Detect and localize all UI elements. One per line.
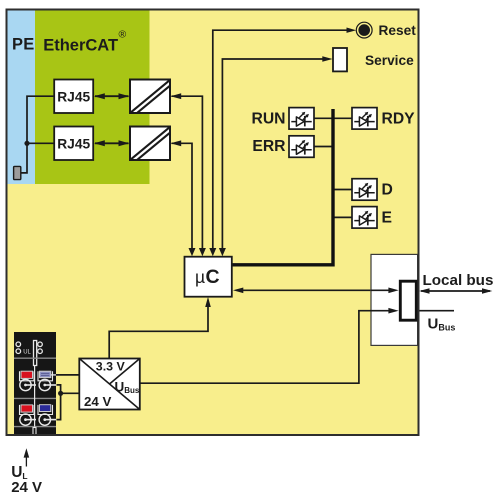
RJ45 port 1 <box>54 80 93 114</box>
magnetics T1 (isolation transformer 1) <box>130 80 174 117</box>
LED D <box>352 179 377 201</box>
wire microcontroller to connector arrowhead (over white box) <box>371 288 399 294</box>
wire RJ45-1 to magnetics T1 (bidirectional) <box>94 93 129 99</box>
LED RDY <box>352 108 377 130</box>
svg-text:E: E <box>382 210 392 227</box>
wire ERR LED to status bus <box>314 146 333 148</box>
UBus stub line to the right of connector <box>418 310 454 312</box>
wire RJ45-2 to magnetics T2 (bidirectional) <box>94 140 129 146</box>
wire magnetics T1 to microcontroller (bidirectional) <box>171 93 206 256</box>
svg-text:Reset: Reset <box>379 23 417 38</box>
wire status bus to LED E <box>333 216 352 218</box>
wire RUN LED to status bus <box>314 117 333 119</box>
svg-text:PE: PE <box>12 35 35 53</box>
junction node on 24V wire <box>58 391 63 396</box>
LED E <box>352 207 377 229</box>
power supply unit <box>79 359 140 410</box>
svg-text:24 V: 24 V <box>84 394 111 409</box>
UL supply arrow <box>24 448 30 466</box>
svg-text:C: C <box>206 266 220 288</box>
PE tab connector <box>14 166 21 179</box>
svg-text:3.3 V: 3.3 V <box>96 360 126 374</box>
svg-text:RJ45: RJ45 <box>57 137 90 152</box>
svg-text:UL: UL <box>23 350 31 356</box>
svg-text:UBus: UBus <box>428 316 456 333</box>
LED RUN <box>289 108 314 130</box>
local bus interface box (white) <box>371 254 418 345</box>
svg-text:Local bus: Local bus <box>423 272 494 289</box>
Service connector <box>333 48 347 71</box>
svg-text:RUN: RUN <box>252 111 286 128</box>
svg-text:RJ45: RJ45 <box>57 90 90 105</box>
terminal group 1 <box>51 374 56 376</box>
svg-text:RDY: RDY <box>382 111 416 128</box>
wire power supply 3.3V to microcontroller <box>109 297 211 359</box>
24V supply terminal block <box>14 332 56 435</box>
svg-text:ERR: ERR <box>252 138 285 155</box>
wire status bus to LED D <box>333 189 352 191</box>
PE zone (blue strip) <box>8 11 36 185</box>
svg-text:µ: µ <box>195 267 205 287</box>
terminal group 2 <box>20 405 35 415</box>
svg-text:D: D <box>382 182 393 199</box>
status bus (thick line from microcontroller to LEDs) <box>232 109 333 265</box>
wire microcontroller to Reset button <box>209 28 356 257</box>
svg-text:EtherCAT: EtherCAT <box>43 36 118 54</box>
wire terminal circles chain <box>57 385 80 420</box>
microcontroller U1 <box>185 257 232 297</box>
EtherCAT zone (green area) <box>35 11 150 185</box>
svg-text:24 V: 24 V <box>11 479 42 496</box>
RJ45 port 2 <box>54 127 93 161</box>
wire status bus to RDY LED <box>333 117 352 119</box>
device outline (yellow body) <box>7 10 419 436</box>
svg-text:®: ® <box>119 29 127 41</box>
local bus double arrow <box>419 288 492 294</box>
LED ERR <box>289 136 314 158</box>
wire 24V terminal to power supply (top) <box>56 374 80 376</box>
Reset button <box>356 22 372 38</box>
wire microcontroller to Service connector <box>219 56 333 256</box>
wire magnetics T2 to microcontroller (bidirectional) <box>171 140 196 256</box>
device outline border (on top) <box>7 10 419 436</box>
junction node on PE wire <box>24 141 29 146</box>
wire power supply UBus to connector <box>140 308 399 383</box>
wire microcontroller to local bus connector (bidirectional) <box>233 288 398 294</box>
magnetics T2 (isolation transformer 2) <box>130 127 174 164</box>
svg-text:Service: Service <box>365 53 414 68</box>
wire RJ45 ports to PE tab <box>21 96 54 173</box>
local bus connector <box>400 281 416 320</box>
